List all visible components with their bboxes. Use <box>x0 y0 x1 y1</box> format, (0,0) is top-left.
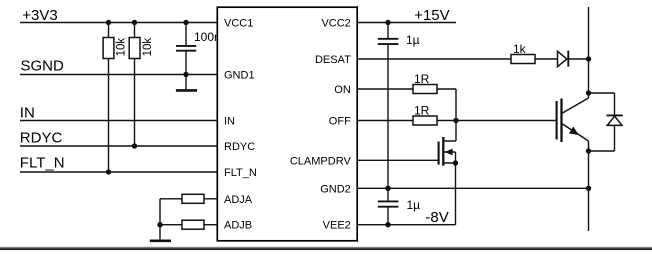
svg-text:1µ: 1µ <box>406 33 420 47</box>
svg-text:CLAMPDRV: CLAMPDRV <box>290 156 352 168</box>
svg-text:SGND: SGND <box>21 58 65 75</box>
svg-text:10k: 10k <box>116 38 128 57</box>
junction dot ADJB <box>157 222 162 227</box>
diode D2 freewheel clamp <box>589 93 623 151</box>
wire collector rail top <box>588 7 590 98</box>
svg-text:FLT_N: FLT_N <box>224 167 257 179</box>
junction dot GND2-emitter <box>586 186 591 191</box>
junction dot OFF node <box>453 118 458 123</box>
svg-text:RDYC: RDYC <box>224 141 255 153</box>
resistor R3 ADJA <box>160 194 217 203</box>
svg-text:GND2: GND2 <box>320 183 351 195</box>
svg-text:DESAT: DESAT <box>315 54 351 66</box>
svg-text:1R: 1R <box>414 72 430 86</box>
wire OFF to gate <box>357 120 556 122</box>
junction dot collector node <box>586 90 591 95</box>
resistor R2 10k pull-up <box>129 23 154 147</box>
wire RDYC <box>20 145 217 147</box>
wire emitter down <box>588 151 590 231</box>
junction dot DESAT node <box>586 56 591 61</box>
junction dots left <box>106 20 111 25</box>
wire DESAT <box>357 58 588 60</box>
wire ON <box>357 89 456 121</box>
junction dot VCC2 <box>385 20 390 25</box>
junction dot emitter node <box>586 148 591 153</box>
wire +3V3 rail <box>20 22 217 24</box>
wire GND2 rail <box>357 187 588 189</box>
svg-text:FLT_N: FLT_N <box>20 154 65 171</box>
svg-text:VCC1: VCC1 <box>224 18 253 30</box>
svg-text:VCC2: VCC2 <box>321 18 350 30</box>
svg-text:VEE2: VEE2 <box>323 220 351 232</box>
ground ADJ <box>150 240 171 243</box>
svg-text:RDYC: RDYC <box>20 129 63 146</box>
op-amp U1 gate driver IC box <box>217 7 357 241</box>
svg-text:+3V3: +3V3 <box>22 7 57 24</box>
svg-text:-8V: -8V <box>425 209 448 226</box>
svg-text:OFF: OFF <box>329 116 351 128</box>
svg-text:+15V: +15V <box>414 7 449 24</box>
svg-text:1k: 1k <box>513 42 527 56</box>
wire IN <box>20 120 217 122</box>
ground GND1 <box>176 75 197 91</box>
svg-text:ADJB: ADJB <box>224 220 252 232</box>
capacitor C3 1u GND2-VEE2 <box>378 188 420 224</box>
page rule bottom <box>0 246 652 249</box>
transistor Q1 clamp MOSFET <box>439 121 459 166</box>
svg-text:IN: IN <box>224 116 235 128</box>
svg-text:GND1: GND1 <box>224 70 255 82</box>
svg-text:IN: IN <box>20 104 35 121</box>
svg-text:1R: 1R <box>414 104 430 118</box>
svg-text:ON: ON <box>334 84 351 96</box>
resistor R6 1R (ON) <box>413 72 437 93</box>
capacitor C2 1u VCC2-GND2 <box>378 23 420 189</box>
capacitor C1 100n <box>176 23 221 75</box>
svg-text:10k: 10k <box>142 38 154 57</box>
wire SGND to GND1 <box>20 74 217 76</box>
wire ADJ vertical <box>159 199 161 240</box>
resistor R4 ADJB <box>160 220 217 229</box>
junction dot GND2-C3 <box>385 186 390 191</box>
wire CLAMPDRV to clamp gate <box>357 159 438 161</box>
resistor R1 10k pull-up <box>103 23 128 173</box>
wire FLT_N <box>20 171 217 173</box>
diode D1 DESAT <box>558 51 569 67</box>
wire VCC2 to +15V <box>357 22 456 24</box>
wire VEE2 <box>357 163 455 225</box>
junction dot VEE2-C3 <box>385 222 390 227</box>
svg-text:1µ: 1µ <box>407 198 421 212</box>
resistor R5 1k <box>511 42 535 64</box>
transistor Q2 IGBT <box>557 98 589 151</box>
svg-text:ADJA: ADJA <box>224 194 253 206</box>
resistor R7 1R (OFF) <box>413 104 437 125</box>
